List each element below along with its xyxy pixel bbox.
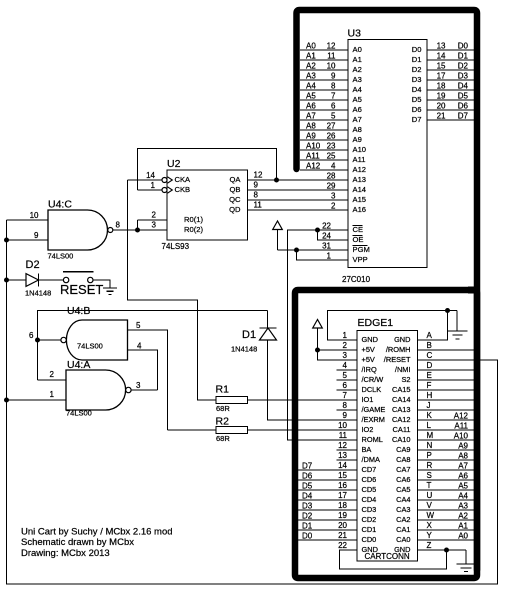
wire EDGE1 pin 22 GND loop under bottom (340, 550, 447, 569)
ground symbol (RESET switch) (103, 287, 117, 289)
svg-text:A7: A7 (306, 112, 316, 121)
svg-text:D5: D5 (302, 482, 313, 491)
svg-text:U4:C: U4:C (48, 199, 72, 211)
svg-text:17: 17 (338, 491, 347, 500)
svg-text:8: 8 (254, 191, 259, 200)
svg-text:1: 1 (327, 252, 332, 261)
wire U3 pin D3 stub (427, 79, 474, 81)
svg-text:CA0: CA0 (396, 535, 410, 544)
wire R0(2) input from U4:C output (113, 229, 167, 231)
wire R2 to EDGE1 pin 10 IO2 (248, 429, 358, 431)
svg-text:D2: D2 (302, 512, 313, 521)
svg-text:A5: A5 (306, 92, 316, 101)
wire U4:B output pin 6 to latch node (38, 339, 61, 341)
svg-text:+5V: +5V (362, 345, 375, 354)
svg-text:A0: A0 (306, 42, 316, 51)
junction GND Z (444, 548, 449, 553)
wire D1 anode to EDGE1 pin 9 /EXRM (268, 340, 358, 420)
svg-text:CA15: CA15 (392, 385, 411, 394)
svg-text:A10: A10 (454, 432, 469, 441)
svg-text:Drawing: MCbx 2013: Drawing: MCbx 2013 (21, 548, 110, 559)
svg-text:D6: D6 (412, 105, 422, 114)
svg-text:D6: D6 (458, 102, 469, 111)
svg-text:CA3: CA3 (396, 505, 410, 514)
svg-text:A0: A0 (458, 532, 468, 541)
junction +5V pins 2/3 (315, 348, 320, 353)
svg-text:/ROMH: /ROMH (386, 345, 411, 354)
svg-text:A15: A15 (353, 195, 367, 204)
cartridge outline top (thick border around U3) (297, 10, 478, 570)
svg-text:/CR/W: /CR/W (362, 375, 384, 384)
svg-text:A2: A2 (458, 512, 468, 521)
switch RESET actuator bar (63, 271, 94, 273)
svg-text:29: 29 (327, 182, 336, 191)
svg-text:4: 4 (137, 342, 142, 351)
EPROM U3 body (348, 40, 427, 268)
wire EDGE1 pin 13 stub (337, 459, 358, 461)
svg-text:E: E (427, 371, 432, 380)
svg-text:H: H (427, 391, 433, 400)
svg-text:CD4: CD4 (362, 495, 377, 504)
svg-text:CD7: CD7 (362, 465, 377, 474)
svg-text:QA: QA (230, 175, 242, 184)
svg-text:A5: A5 (458, 482, 468, 491)
svg-text:3: 3 (331, 192, 336, 201)
svg-text:D5: D5 (412, 95, 422, 104)
U4:A output bubble pin 3 (126, 387, 131, 392)
svg-text:D6: D6 (302, 472, 313, 481)
U2 pin CKA clock chevron (168, 177, 173, 183)
svg-text:QB: QB (230, 185, 241, 194)
svg-text:/RESET: /RESET (384, 355, 411, 364)
svg-text:68R: 68R (216, 404, 230, 413)
svg-text:X: X (427, 521, 433, 530)
wire QC output to U3 A15 (248, 199, 348, 201)
svg-text:14: 14 (437, 52, 446, 61)
svg-text:GND: GND (362, 335, 378, 344)
svg-text:CE: CE (353, 225, 364, 234)
svg-text:U4:A: U4:A (67, 359, 90, 371)
svg-text:13: 13 (338, 451, 347, 460)
wire CE net from ROML riser to U3 CE (288, 230, 358, 440)
svg-text:R: R (427, 461, 433, 470)
svg-text:A12: A12 (454, 412, 469, 421)
wire U3 pin A4 stub (300, 89, 348, 91)
junction rail/U4:A pin1 (4, 398, 9, 403)
svg-text:1: 1 (50, 390, 55, 399)
svg-text:A6: A6 (458, 472, 468, 481)
wire EDGE1 pin 5 stub (337, 379, 358, 381)
wire EDGE1 pin P stub (418, 459, 475, 461)
wire EDGE1 pin 16 (data) (294, 489, 357, 491)
wire EDGE1 pin S stub (418, 479, 475, 481)
junction U4:B output node (35, 338, 40, 343)
svg-text:/GAME: /GAME (362, 405, 386, 414)
svg-text:6: 6 (343, 381, 348, 390)
svg-text:22: 22 (338, 541, 347, 550)
wire D2 cathode to switch (39, 279, 64, 281)
svg-text:14: 14 (146, 171, 155, 180)
wire EDGE1 pin 10 stub (337, 429, 358, 431)
svg-text:D3: D3 (302, 502, 313, 511)
svg-text:A1: A1 (306, 52, 316, 61)
svg-text:VPP: VPP (353, 255, 368, 264)
junction GND loop (445, 308, 450, 313)
wire R0(1) to R0(2) bracket (137, 220, 139, 230)
svg-text:D4: D4 (302, 492, 313, 501)
svg-text:IO1: IO1 (362, 395, 374, 404)
svg-text:1N4148: 1N4148 (231, 345, 257, 354)
junction PGM/VPP (294, 248, 299, 253)
svg-text:A11: A11 (353, 155, 366, 164)
svg-text:R2: R2 (216, 416, 230, 428)
cartridge outline bottom (thick border around EDGE1) (468, 287, 480, 294)
svg-text:CA1: CA1 (396, 525, 410, 534)
wire EDGE1 pin D stub (418, 369, 475, 371)
svg-text:K: K (427, 411, 433, 420)
wire rail to D2 anode (7, 279, 27, 281)
wire CKB input (138, 189, 163, 191)
junction CE/OE (315, 228, 320, 233)
svg-text:D3: D3 (458, 72, 469, 81)
svg-text:D3: D3 (412, 75, 422, 84)
wire EDGE1 pin B stub (418, 349, 475, 351)
svg-text:A9: A9 (306, 132, 316, 141)
svg-text:A1: A1 (458, 522, 468, 531)
svg-text:8: 8 (331, 82, 336, 91)
svg-text:D2: D2 (412, 65, 422, 74)
svg-text:19: 19 (338, 511, 347, 520)
wire EDGE1 pin 8 stub (337, 409, 358, 411)
wire U3 pin A0 stub (300, 49, 348, 51)
svg-text:15: 15 (437, 62, 446, 71)
svg-text:CA7: CA7 (396, 465, 410, 474)
svg-text:DCLK: DCLK (362, 385, 382, 394)
svg-text:CD5: CD5 (362, 485, 377, 494)
wire EDGE1 pin K stub (418, 419, 475, 421)
wire U3 pin A9 stub (300, 139, 348, 141)
wire U4:C pin 9 input from reset rail (7, 239, 49, 241)
svg-text:A9: A9 (458, 442, 468, 451)
wire EDGE1 pin 20 (data) (294, 529, 357, 531)
svg-text:A2: A2 (353, 65, 362, 74)
svg-text:IO2: IO2 (362, 425, 374, 434)
svg-text:13: 13 (437, 42, 446, 51)
svg-text:A13: A13 (353, 175, 367, 184)
svg-text:6: 6 (29, 331, 34, 340)
svg-text:12: 12 (254, 171, 263, 180)
svg-text:S: S (427, 471, 432, 480)
wire latch node vertical + top link to D1 cathode (38, 311, 268, 381)
wire EDGE1 pin 18 (data) (294, 509, 357, 511)
switch RESET contact left (63, 277, 68, 282)
diode D1 cathode bar (260, 327, 277, 329)
svg-text:U3: U3 (348, 28, 362, 40)
wire U3 pin A10 stub (300, 149, 348, 151)
svg-text:RESET: RESET (60, 282, 103, 297)
svg-text:D0: D0 (412, 45, 422, 54)
wire R1 to EDGE1 pin 7 IO1 (248, 399, 358, 401)
svg-text:23: 23 (327, 142, 336, 151)
svg-text:A8: A8 (353, 125, 362, 134)
U2 pin CKB bubble (162, 188, 167, 193)
wire PGM to +5V (278, 249, 349, 251)
svg-text:D7: D7 (458, 112, 469, 121)
wire +5V to pin 3 (318, 328, 358, 360)
svg-text:12: 12 (338, 441, 347, 450)
wire CKA net: U2 CKA down, across, to R1 (128, 180, 217, 400)
svg-text:26: 26 (327, 132, 336, 141)
svg-text:20: 20 (437, 102, 446, 111)
svg-text:B: B (427, 341, 432, 350)
wire EDGE1 pin Y stub (418, 539, 475, 541)
svg-text:A4: A4 (458, 492, 468, 501)
junction QA/CKB (274, 178, 279, 183)
wire QD output to U3 A16 (248, 209, 348, 211)
svg-text:3: 3 (343, 351, 348, 360)
svg-text:27C010: 27C010 (342, 275, 371, 284)
svg-text:18: 18 (437, 82, 446, 91)
svg-text:A12: A12 (306, 162, 321, 171)
svg-text:/IRQ: /IRQ (362, 365, 377, 374)
svg-text:A9: A9 (353, 135, 362, 144)
wire U4:A pin 2 input from latch node (38, 379, 67, 381)
svg-text:L: L (427, 421, 432, 430)
svg-text:GND: GND (362, 545, 378, 554)
svg-text:D0: D0 (302, 532, 313, 541)
svg-text:2: 2 (50, 370, 55, 379)
svg-text:A7: A7 (458, 462, 468, 471)
svg-text:A: A (427, 331, 433, 340)
svg-text:2: 2 (152, 211, 157, 220)
svg-text:4: 4 (331, 162, 336, 171)
ground symbol (EDGE1 top right) (456, 311, 458, 332)
wire U3 pin A8 stub (300, 129, 348, 131)
svg-text:T: T (427, 481, 432, 490)
svg-text:5: 5 (136, 321, 141, 330)
wire EDGE1 pin L stub (418, 429, 475, 431)
wire R0(1) input (138, 219, 168, 221)
svg-text:27: 27 (327, 122, 336, 131)
svg-text:M: M (427, 431, 434, 440)
svg-text:1N4148: 1N4148 (25, 289, 51, 298)
svg-text:A4: A4 (353, 85, 362, 94)
svg-text:74LS00: 74LS00 (66, 409, 92, 418)
svg-text:A12: A12 (353, 165, 367, 174)
svg-text:CKA: CKA (175, 175, 192, 184)
wire CKA input (128, 179, 163, 181)
U4:C output bubble pin 8 (108, 228, 113, 233)
svg-text:D1: D1 (458, 52, 469, 61)
wire EDGE1 pin 17 (data) (294, 499, 357, 501)
svg-text:W: W (427, 511, 435, 520)
wire U3 pin D4 stub (427, 89, 474, 91)
wire EDGE1 pin T stub (418, 489, 475, 491)
svg-text:7: 7 (331, 92, 336, 101)
wire EDGE1 pin X stub (418, 529, 475, 531)
wire EDGE1 pin U stub (418, 499, 475, 501)
wire switch to ground (93, 280, 110, 288)
svg-text:CA6: CA6 (396, 475, 410, 484)
wire EDGE1 pin E stub (418, 379, 475, 381)
svg-text:22: 22 (322, 222, 331, 231)
svg-text:74LS00: 74LS00 (48, 252, 74, 261)
wire EDGE1 pin 1 GND loop over top (328, 311, 458, 341)
svg-text:A3: A3 (306, 72, 316, 81)
wire U3 pin A11 stub (300, 159, 348, 161)
svg-text:11: 11 (254, 201, 263, 210)
wire pin 2 +5V (318, 349, 358, 351)
switch RESET contact right (88, 277, 93, 282)
diode D2 cathode bar (38, 274, 40, 287)
svg-text:P: P (427, 451, 432, 460)
wire U3 pin A6 stub (300, 109, 348, 111)
svg-text:Z: Z (427, 541, 432, 550)
svg-text:CA4: CA4 (396, 495, 410, 504)
junction rail/D2 (4, 278, 9, 283)
wire U4:B pin 4 input from U4:A output (128, 350, 158, 390)
svg-text:28: 28 (327, 172, 336, 181)
svg-text:GND: GND (394, 545, 410, 554)
svg-text:D7: D7 (412, 115, 422, 124)
svg-text:U: U (427, 491, 433, 500)
svg-text:A6: A6 (353, 105, 362, 114)
svg-text:CD6: CD6 (362, 475, 377, 484)
svg-text:S2: S2 (401, 375, 410, 384)
svg-text:21: 21 (437, 112, 446, 121)
svg-text:4: 4 (343, 361, 348, 370)
svg-text:24: 24 (322, 232, 331, 241)
wire U3 pin D5 stub (427, 99, 474, 101)
wire U4:A pin 1 input from rail (7, 399, 67, 401)
wire QA output to U3 A13 (248, 179, 348, 181)
wire U3 pin D1 stub (427, 59, 474, 61)
wire U3 pin A2 stub (300, 69, 348, 71)
svg-text:R0(1): R0(1) (184, 215, 203, 224)
svg-text:A7: A7 (353, 115, 362, 124)
svg-text:A11: A11 (306, 152, 320, 161)
svg-text:A6: A6 (306, 102, 316, 111)
svg-text:9: 9 (343, 411, 348, 420)
U2 pin CKB clock chevron (168, 187, 173, 193)
svg-text:J: J (427, 401, 431, 410)
svg-text:9: 9 (34, 231, 39, 240)
svg-text:25: 25 (327, 152, 336, 161)
U4:B output bubble pin 6 (61, 337, 66, 342)
svg-text:6: 6 (331, 102, 336, 111)
wire EDGE1 pin 9 stub (337, 419, 358, 421)
wire U3 pin A7 stub (300, 119, 348, 121)
svg-text:D4: D4 (412, 85, 422, 94)
svg-text:CA11: CA11 (393, 425, 411, 434)
svg-text:/EXRM: /EXRM (362, 415, 385, 424)
svg-text:Uni Cart by Suchy / MCbx 2.16: Uni Cart by Suchy / MCbx 2.16 mod (21, 527, 173, 538)
svg-text:Schematic drawn by MCbx: Schematic drawn by MCbx (21, 537, 134, 548)
svg-text:D0: D0 (458, 42, 469, 51)
svg-text:D2: D2 (458, 62, 469, 71)
svg-text:A3: A3 (458, 502, 468, 511)
wire CKB feedback loop from QA (138, 149, 277, 191)
diode D1 symbol (pointing up) (260, 328, 277, 340)
wire U3 pin D2 stub (427, 69, 474, 71)
svg-text:1: 1 (343, 331, 348, 340)
svg-text:/DMA: /DMA (362, 455, 381, 464)
svg-text:PGM: PGM (353, 245, 370, 254)
svg-text:11: 11 (339, 431, 348, 440)
svg-text:A10: A10 (353, 145, 367, 154)
wire U4:A output pin 3 (131, 389, 157, 391)
svg-text:A11: A11 (454, 422, 468, 431)
NAND gate U4:B body (mirrored) (66, 320, 127, 360)
svg-text:5: 5 (331, 112, 336, 121)
svg-text:+5V: +5V (362, 355, 375, 364)
wire U3 pin D6 stub (427, 109, 474, 111)
svg-text:QD: QD (229, 205, 241, 214)
U2 pin CKA bubble (162, 178, 167, 183)
svg-text:V: V (427, 501, 433, 510)
svg-text:R1: R1 (216, 384, 230, 396)
svg-text:74LS93: 74LS93 (162, 242, 190, 251)
junction U4:C output node (135, 228, 140, 233)
svg-text:11: 11 (327, 52, 336, 61)
svg-text:CA10: CA10 (392, 435, 411, 444)
wire EDGE1 pin V stub (418, 509, 475, 511)
power +5V arrow (EDGE1 pins 2,3) (313, 320, 323, 329)
svg-text:CA2: CA2 (396, 515, 410, 524)
svg-text:10: 10 (327, 62, 336, 71)
svg-text:GND: GND (394, 335, 410, 344)
wire D1 cathode riser (267, 311, 269, 329)
svg-text:8: 8 (116, 221, 121, 230)
svg-text:CA8: CA8 (396, 455, 410, 464)
svg-text:15: 15 (338, 471, 347, 480)
svg-text:D: D (427, 361, 433, 370)
svg-text:Y: Y (427, 531, 433, 540)
counter U2 body (167, 170, 248, 240)
svg-text:CD2: CD2 (362, 515, 377, 524)
wire EDGE1 pin 12 stub (337, 449, 358, 451)
wire EDGE1 pin 19 (data) (294, 519, 357, 521)
svg-text:17: 17 (437, 72, 446, 81)
wire U3 pin A5 stub (300, 99, 348, 101)
wire EDGE1 pin 15 (data) (294, 479, 357, 481)
svg-text:A5: A5 (353, 95, 362, 104)
svg-text:QC: QC (229, 195, 241, 204)
wire U3 pin D7 stub (427, 119, 474, 121)
wire EDGE1 pin 4 stub (337, 369, 358, 371)
svg-text:A14: A14 (353, 185, 367, 194)
svg-text:D1: D1 (242, 329, 256, 341)
wire EDGE1 pin W stub (418, 519, 475, 521)
svg-text:9: 9 (254, 181, 259, 190)
svg-text:2: 2 (331, 202, 336, 211)
svg-text:D2: D2 (26, 259, 40, 271)
svg-text:A4: A4 (306, 82, 316, 91)
svg-text:CA13: CA13 (392, 405, 411, 414)
svg-text:19: 19 (437, 92, 446, 101)
resistor R1 body (216, 397, 248, 404)
svg-text:D5: D5 (458, 92, 469, 101)
wire OE bracket from CE (318, 230, 349, 240)
svg-text:CD1: CD1 (362, 525, 377, 534)
svg-text:N: N (427, 441, 433, 450)
wire EDGE1 pin 6 stub (337, 389, 358, 391)
svg-text:20: 20 (338, 521, 347, 530)
svg-text:A8: A8 (306, 122, 316, 131)
svg-text:A10: A10 (306, 142, 321, 151)
svg-text:10: 10 (338, 421, 347, 430)
svg-text:D7: D7 (302, 462, 313, 471)
